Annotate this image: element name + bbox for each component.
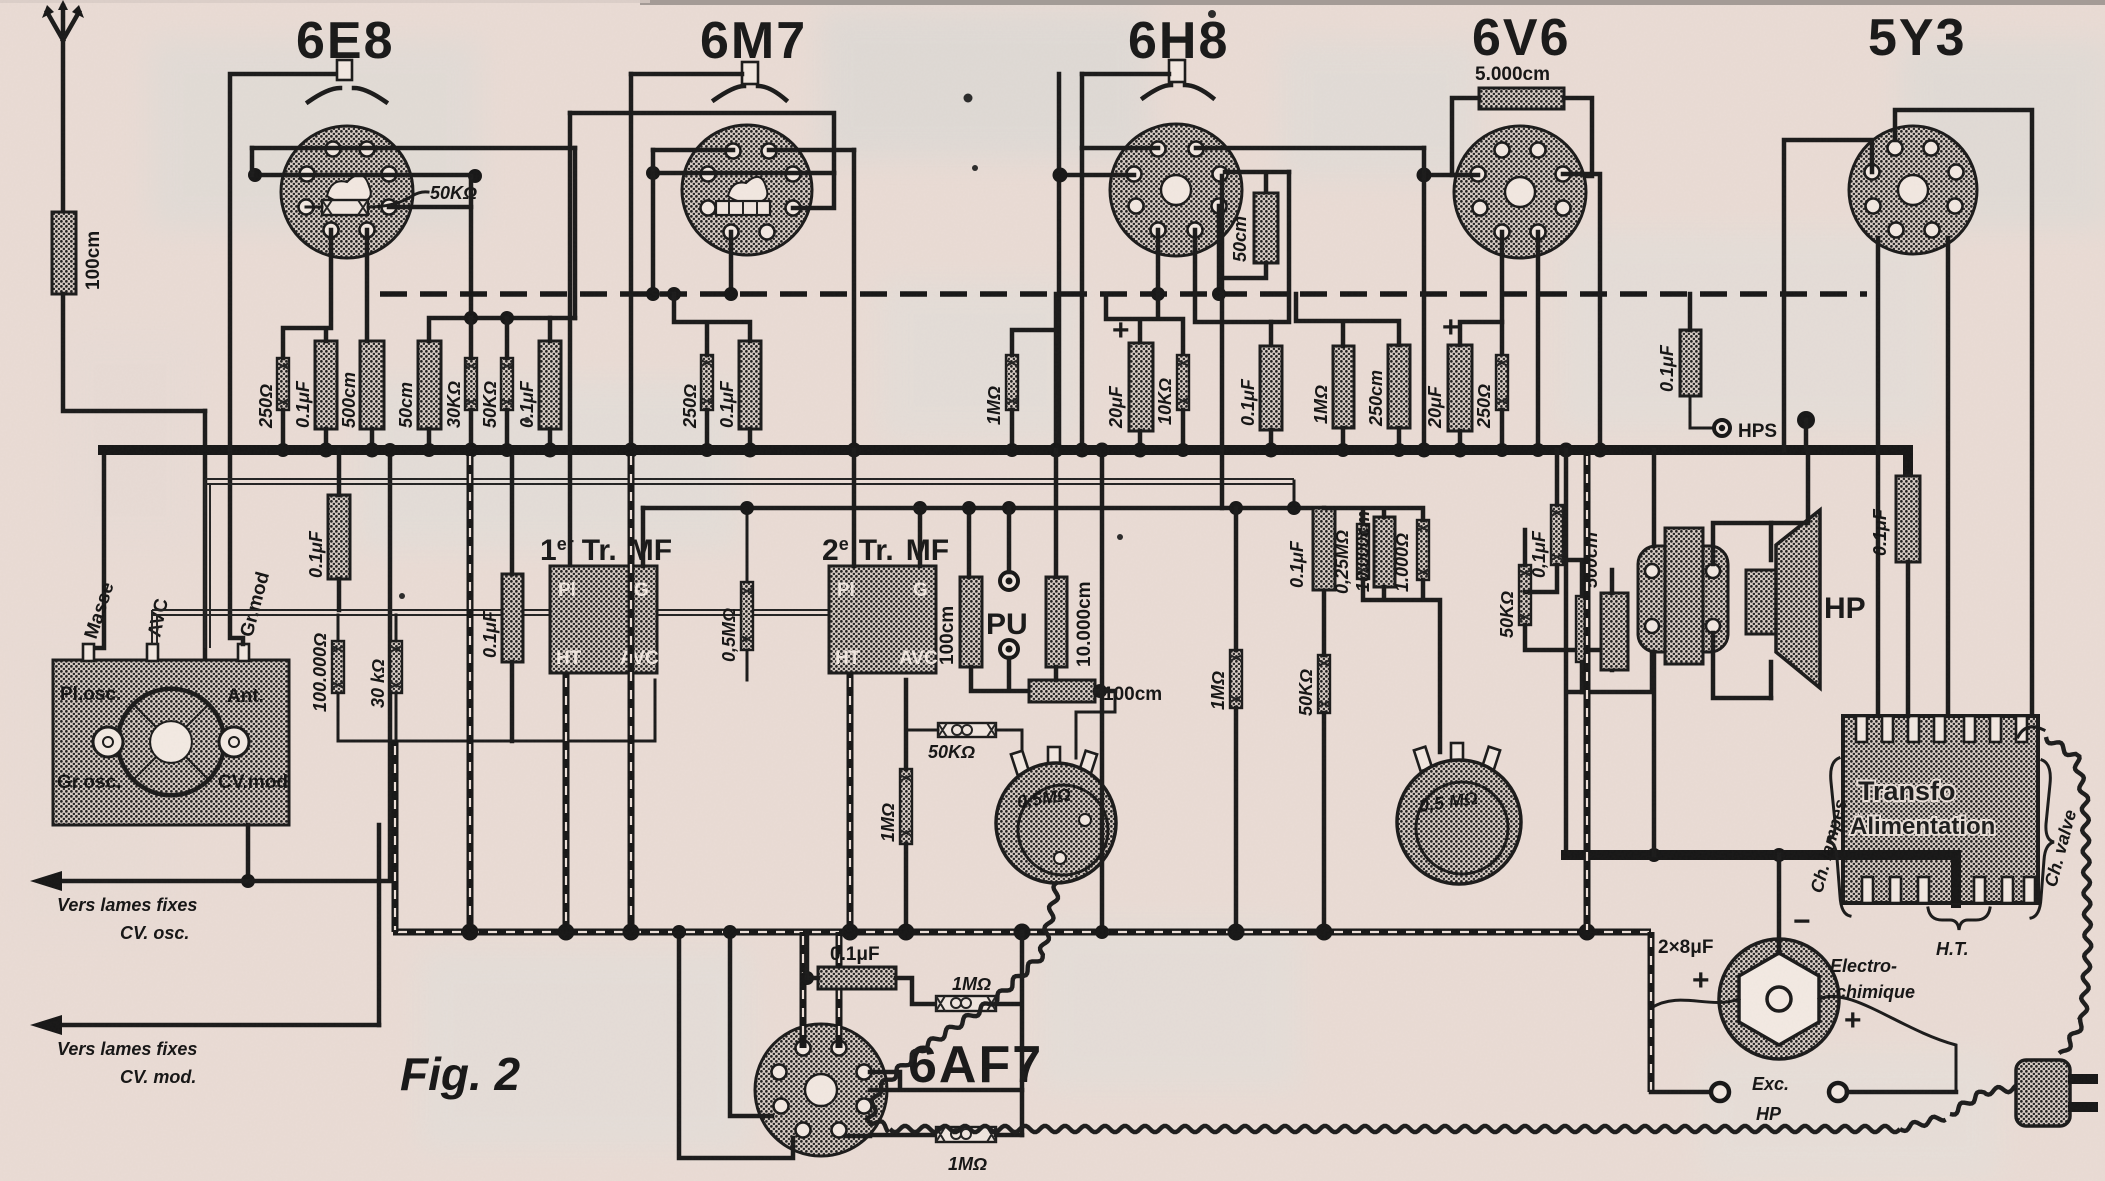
label Ch. valve	[2041, 808, 2081, 890]
capacitor 20uF (electrolytic)	[1129, 343, 1153, 431]
brace HT	[1928, 908, 1990, 930]
label 6AF7	[908, 1036, 1043, 1094]
label 50Kohm	[1497, 591, 1517, 638]
tube 6M7 envelope	[682, 125, 812, 255]
wire 6V6 screen drop	[1536, 232, 1541, 450]
capacitor 500cm	[360, 341, 384, 429]
wire 2e MF HT drop (dashed black)	[847, 673, 854, 932]
label Pl.osc	[60, 684, 121, 705]
oscillator socket	[93, 688, 249, 796]
wire group bottoms to pot2	[1363, 579, 1440, 752]
resistor 30kohm (osc)	[390, 641, 402, 693]
label 0.1uF	[480, 610, 500, 658]
wire 6V6 grid line	[1424, 173, 1478, 178]
label 1Mohm	[1208, 671, 1228, 710]
capacitor 0.1uF (AVC)	[539, 341, 561, 429]
terminal HPS	[1714, 420, 1730, 436]
label 250ohm	[256, 384, 276, 429]
label 1er Tr. MF	[540, 534, 672, 567]
tube 6V6 pins	[1471, 143, 1571, 240]
wire 0.1uF column	[510, 450, 515, 741]
wire 6V6 cath comps bottoms	[1460, 410, 1502, 450]
main HT bus	[103, 445, 1810, 455]
wire 6E8 top grid line	[252, 146, 575, 151]
top cap 6E8	[308, 60, 386, 102]
tube 5Y3 envelope	[1849, 126, 1977, 254]
transformer bottom terminal slots	[1862, 877, 2035, 903]
wire 1er MF G drop	[641, 508, 646, 566]
label 250ohm	[680, 384, 700, 429]
transformer top terminal slots	[1856, 716, 2027, 742]
resistor 250ohm (6V6 cathode)	[1496, 355, 1508, 410]
tube 6E8 pins	[299, 142, 397, 238]
wire x854 drop	[852, 150, 857, 450]
wire 30kohm top	[395, 615, 398, 641]
resistor 1.000ohm	[1417, 520, 1429, 580]
label 1Mohm	[948, 1154, 987, 1174]
wire 0.1uF top stub	[1269, 322, 1274, 346]
wire 100.000ohm top	[337, 615, 340, 641]
wire 2e MF Pl riser	[852, 450, 857, 566]
tube 6V6 envelope	[1454, 126, 1586, 258]
wire group tops	[1324, 508, 1423, 524]
label 0,5 Mohm (tone pot)	[1418, 788, 1479, 816]
node dashed bus dots	[646, 287, 738, 301]
node 471/318	[464, 311, 514, 325]
wire 6AF7 bottom left feed	[679, 932, 793, 1158]
node 0.1uF left	[800, 932, 818, 985]
node bus x390	[383, 443, 397, 457]
wire x631 riser	[629, 74, 634, 450]
resistor 1Mohm (6AF7 top)	[936, 996, 996, 1011]
wire 1M right riser	[996, 932, 1022, 1135]
label + (6V6 20uF)	[1442, 311, 1460, 344]
resistor 30Kohm	[465, 358, 477, 410]
wire 2e MF G riser	[913, 501, 927, 566]
terminal PU top	[1000, 572, 1018, 590]
ink specks	[399, 10, 1216, 599]
node bus dots 6E8	[276, 443, 558, 458]
wire dashed bus	[380, 291, 1867, 297]
label HPS	[1738, 421, 1777, 442]
speaker HP driver	[1746, 570, 1776, 634]
pin Pl / G / HT / AVC (2e)	[835, 580, 938, 669]
wire 6AF7 right pins	[846, 1072, 1022, 1136]
label 0.1uF	[517, 380, 537, 428]
node 100cm right	[1056, 667, 1115, 698]
label 30Kohm	[444, 381, 464, 428]
wire 6H8 plate line	[1059, 173, 1134, 178]
label 6V6	[1472, 9, 1571, 67]
capacitor 0.1uF (6H8)	[1260, 346, 1282, 430]
wire 0.1uF right to 1M	[896, 978, 936, 1004]
resistor 250ohm (6E8 cathode)	[277, 358, 289, 410]
capacitor 50cm (6H8)	[1254, 193, 1278, 263]
wire vers lames fixes CV.osc	[30, 450, 390, 891]
label Electro-chimique	[1830, 956, 1915, 1002]
capacitor 0.1uF (HT)	[1896, 476, 1920, 562]
wire 6H8 cath pin drop	[1156, 230, 1161, 316]
wire electro right + lead	[1819, 996, 1956, 1092]
wire 1M/250cm tops	[1296, 294, 1399, 346]
label + (left)	[1692, 964, 1710, 997]
wire cord into plug	[1950, 1086, 2016, 1115]
wire 6AF7 left feed	[730, 932, 772, 1116]
label 0.1uF	[1870, 508, 1890, 556]
capacitor electrochimique 2x8uF	[1719, 939, 1839, 1059]
capacitor 20uF (6V6 electrolytic)	[1448, 345, 1472, 431]
resistor 1Mohm (x1236)	[1230, 650, 1242, 708]
transformer HP terminals	[1645, 564, 1720, 633]
transformer HP core	[1665, 528, 1703, 664]
label 1.000ohm	[1392, 533, 1412, 592]
label 10.000cm	[1074, 581, 1095, 667]
label minus	[1793, 905, 1811, 938]
label AVC	[144, 597, 173, 639]
wire 0.1uF to transfo	[1906, 562, 1911, 716]
wire antenna to bus	[63, 294, 205, 411]
node dash bus	[1151, 287, 1226, 301]
capacitor 0.1uF (HPS)	[1680, 330, 1701, 396]
label 0.1uF	[293, 380, 313, 428]
resistor 0.25Mohm	[1357, 524, 1369, 579]
transformer HP (output) bobbin	[1638, 546, 1728, 652]
wire vers lames fixes CV.mod	[30, 1015, 379, 1035]
wire CV.osc pin drop	[246, 825, 251, 881]
capacitor 500cm	[1601, 593, 1628, 670]
terminal AVC	[147, 644, 158, 661]
capacitor 250cm	[1388, 345, 1410, 428]
wire left bus drop to Masse	[90, 411, 205, 660]
wire PU top link	[962, 501, 1009, 577]
wire bus to frame	[1775, 450, 1808, 523]
label 1Mohm	[878, 803, 898, 842]
wire rail left riser	[392, 741, 399, 932]
wire electro left + lead	[1651, 999, 1739, 1008]
wire primary feeds	[1582, 450, 1654, 692]
wire twisted pair volume to mains	[867, 882, 1946, 1132]
label Ant	[227, 686, 264, 707]
capacitor 5.000cm (tone)	[1479, 88, 1564, 109]
wire 0.1uF HT cap column	[1906, 476, 1911, 479]
wire x1082 riser	[1080, 74, 1085, 450]
wire x1102 drop to rail	[1095, 443, 1110, 940]
label 0,5Mohm (volume pot)	[1016, 785, 1072, 812]
label Exc. HP	[1752, 1074, 1789, 1124]
wire HT feed inside transfo	[1843, 855, 1956, 898]
tube 6M7 pins	[701, 144, 801, 240]
label HT.	[1936, 939, 1969, 959]
wire heater pair to Exc terminals	[1587, 450, 1651, 1092]
label 0.1uF	[717, 380, 737, 428]
wire 1M x1236 column	[1234, 508, 1239, 932]
wire 1M bottom right	[996, 1133, 1022, 1138]
capacitor 10.000cm	[1046, 577, 1067, 667]
label CV.mod	[218, 772, 288, 793]
wire 50cm top link	[429, 318, 575, 341]
resistor 10Kohm	[1177, 355, 1189, 410]
label 1Mohm	[984, 386, 1004, 425]
wire 6H8 grid line	[1082, 146, 1424, 151]
label 0.25Mohm	[1332, 530, 1352, 594]
capacitor 0.1uF (osc grid)	[502, 574, 523, 662]
resistor 1Mohm (AF coupling)	[900, 769, 912, 844]
resistor 50Kohm (6V6 grid stopper)	[1519, 565, 1531, 625]
transformer 2e Tr.MF	[829, 566, 936, 673]
plug secteur	[2016, 1060, 2098, 1126]
wire 6M7 plate line y173	[653, 171, 834, 176]
label 20uF	[1425, 385, 1445, 429]
top cap 6H8	[1143, 60, 1213, 98]
label 100cm	[83, 231, 104, 290]
wire 6M7 top cap feed	[631, 72, 742, 77]
wire 1M top	[1012, 330, 1056, 355]
wire AVC return to 1er MF	[338, 680, 655, 741]
transformer 1er Tr.MF	[550, 566, 657, 673]
label 1Mohm	[1311, 385, 1331, 424]
wire x1056 column	[1054, 294, 1059, 450]
wire 0.5M links	[746, 508, 749, 680]
node CV.osc junction	[241, 874, 255, 888]
node 6V6 grid	[1417, 168, 1432, 183]
wire PU bottom to 100cm horiz	[971, 658, 1029, 691]
brace Ch. lampes	[1827, 758, 1850, 916]
label 100cm	[1103, 684, 1162, 705]
wire tone cap loop	[1452, 98, 1592, 176]
label Transfo Alimentation	[1850, 776, 1995, 840]
brace Ch. valve	[2031, 760, 2054, 918]
label Vers lames fixes CV.osc	[57, 895, 197, 943]
node x730	[723, 925, 737, 939]
AVC double line	[152, 610, 918, 644]
wire secondary frame to speaker	[1713, 523, 1771, 698]
node 653/173	[646, 166, 660, 180]
node plate corner	[248, 148, 482, 183]
wire x570 drop to 1er MF	[568, 113, 573, 566]
label 0.1uF	[830, 944, 880, 965]
label 0.1uF	[1287, 540, 1307, 588]
wire heater riser x470	[467, 450, 474, 932]
wire Exc left link	[1651, 1090, 1710, 1095]
wire 6M7 cathode pin drop	[729, 232, 734, 294]
wire 5Y3 cathode top loop	[1895, 110, 2032, 716]
wire Exc right link	[1847, 1090, 1956, 1095]
speaker HP cone	[1776, 510, 1820, 688]
resistor 50Kohm (grid leak)	[501, 358, 513, 410]
wire 6AF7 heater dashes	[803, 932, 839, 1048]
wire Gr.mod riser (to 6E8 top cap)	[230, 74, 337, 644]
wire 6V6 cath drop	[1500, 232, 1505, 355]
node rail dots	[462, 924, 1596, 941]
label Ch. lampes	[1807, 797, 1851, 895]
label 50Kohm	[1296, 669, 1316, 716]
wire 6E8 plate line	[252, 173, 475, 178]
resistor 1Mohm (detector)	[1006, 355, 1018, 410]
label 0.1uF	[1529, 530, 1549, 578]
wire 30kohm bottom	[395, 693, 398, 741]
capacitor 100cm (PU)	[960, 577, 982, 667]
capacitor 50cm	[418, 341, 441, 429]
wire screen pin to grid-leak column	[389, 205, 471, 210]
wire 1er MF HT drop (dashed black)	[563, 673, 570, 932]
label 6E8	[296, 12, 395, 70]
tube 6E8 envelope	[281, 126, 413, 258]
wire 0.1uF to HPS terminal	[1690, 396, 1712, 428]
wire x575 column	[573, 148, 578, 318]
label 0.1uF	[1657, 344, 1677, 392]
label 50Kohm	[928, 742, 975, 762]
wire x1424 riser	[1422, 148, 1427, 450]
wire heater riser x631	[628, 450, 635, 932]
node bus dots 6M7	[624, 443, 862, 458]
node y508 dots	[740, 501, 1301, 515]
wire grid return y508	[643, 506, 1324, 511]
wire 6M7 top bus y113	[570, 113, 834, 173]
node 1059/175	[1053, 168, 1068, 183]
node y855 dots	[1647, 848, 1875, 862]
label 6M7	[700, 12, 807, 70]
label 100cm	[937, 606, 958, 665]
capacitor 10.000cm	[1374, 517, 1395, 587]
terminal PU bottom	[1000, 640, 1018, 658]
AVC double line to 2e MF	[914, 615, 919, 671]
label 0.5Mohm	[719, 608, 739, 662]
wire cathode pin to 250/0.1 tops	[283, 230, 331, 358]
wire 30K 50K 0.1 tops	[471, 318, 550, 358]
label 2x8uF	[1658, 937, 1713, 958]
wire 10.000cm top	[1054, 450, 1059, 577]
terminal Gr.mod	[238, 644, 249, 661]
wire AVC drop to grid group	[1293, 481, 1296, 508]
terminal Exc HP right	[1829, 1083, 1847, 1101]
wire 1M column	[904, 680, 909, 932]
label Gr.osc	[57, 772, 121, 793]
wire CV.mod pin drop	[377, 825, 382, 1025]
resistor 0.1uF (small)	[1551, 505, 1563, 565]
wire 50cm bottom	[1219, 206, 1266, 294]
AVC long double line below bus	[205, 479, 1294, 648]
wire 20uF/10K tops	[1106, 294, 1183, 355]
label PU	[986, 608, 1028, 641]
wire x1289 drop	[1195, 172, 1289, 322]
wire 5Y3 plate drops	[1878, 238, 1948, 716]
label 0.1uF	[306, 530, 326, 578]
potentiometer 0.5Mohm (tone)	[1397, 743, 1521, 884]
socket bar 6M7	[716, 201, 770, 215]
wire 6M7 cathode comps tops	[674, 294, 750, 355]
label 20uF	[1106, 385, 1126, 429]
wire 50K links	[906, 691, 1115, 758]
wire secteur twisted cord right	[2018, 727, 2091, 1054]
wire 0.1uF to dashed bus	[1688, 294, 1693, 330]
tube 6AF7 envelope	[755, 1024, 887, 1156]
wire 6M7 comps bottoms	[707, 410, 750, 450]
wire electro top	[1777, 855, 1782, 953]
wire screen link	[793, 173, 834, 208]
wire 6H8 diode lead	[1225, 172, 1289, 193]
node HPS tap	[1797, 411, 1815, 450]
tube 6H8 pins	[1127, 142, 1228, 238]
wire grid-leak column x471	[469, 176, 474, 318]
capacitor 0.1uF (coupling)	[1313, 508, 1335, 590]
wire 20uF top	[1460, 322, 1502, 345]
wire HT feed line y855	[1566, 855, 1956, 903]
wire 500cm links	[1566, 450, 1612, 855]
label Masse	[81, 580, 119, 642]
label 500cm	[339, 372, 359, 428]
label Fig. 2	[400, 1048, 521, 1100]
capacitor 500cm (tone, small)	[1576, 596, 1589, 662]
resistor 1Mohm (6AF7 bottom)	[936, 1127, 996, 1142]
label Gr.mod	[237, 570, 274, 640]
label 50Kohm	[480, 381, 500, 428]
label 250cm	[1366, 370, 1386, 427]
label 1Mohm	[952, 974, 991, 994]
label 50Kohm	[430, 183, 477, 203]
wire 5Y3 left loop	[1784, 140, 1872, 450]
capacitor 0.1uF (6E8 cathode, below bus)	[328, 495, 350, 579]
wire 0.1uF stub	[337, 450, 342, 610]
wire x1222 riser from y508	[1220, 176, 1225, 508]
edge smudge top	[640, 0, 2105, 5]
capacitor 100cm (antenna)	[52, 212, 76, 294]
wire 6H8 cap feed	[1082, 72, 1169, 77]
resistor 250ohm (6M7 cathode)	[701, 355, 713, 410]
wire component bottoms to bus	[283, 410, 550, 450]
node bus dots mid	[1005, 443, 1406, 458]
label 0.1uF	[1238, 378, 1258, 426]
label 500cm	[1581, 532, 1601, 588]
wire 6V6 plate	[1563, 174, 1600, 450]
capacitor 0.1uF (6E8 cathode)	[315, 341, 337, 429]
wire HT rail (black with white dashes)	[393, 929, 1651, 936]
pin Pl / G / HT / AVC (1er)	[556, 580, 659, 669]
tube 5Y3 pins	[1865, 141, 1964, 238]
wire x1059 riser	[1057, 74, 1062, 450]
tube 6AF7 pins	[772, 1041, 872, 1138]
antenna	[42, 0, 84, 212]
resistor 100.000ohm	[332, 641, 344, 693]
capacitor 100cm (horizontal)	[1029, 680, 1095, 702]
potentiometer 0.5Mohm (volume)	[996, 747, 1116, 883]
top cap 6M7	[714, 62, 786, 100]
label 2e Tr. MF	[822, 534, 949, 567]
wire 6M7 grid line y150	[653, 148, 854, 153]
wire speaker frame verticals	[1769, 523, 1774, 698]
label HP	[1824, 592, 1866, 625]
wire 0.1uF/50K links	[1525, 450, 1612, 670]
tube 6H8 envelope	[1110, 124, 1242, 256]
wire x1654 to primary	[1652, 652, 1657, 855]
label 10.000cm	[1353, 511, 1373, 592]
resistor 1Mohm (AF grid)	[1333, 346, 1354, 428]
resistor 50Kohm (horizontal)	[938, 723, 996, 737]
oscillator padder block	[53, 660, 289, 825]
label + (20uF)	[1112, 314, 1130, 347]
resistor 50Kohm (inside socket)	[322, 200, 368, 215]
node bus dots 6V6	[1417, 443, 1608, 458]
wire x653 column	[651, 150, 656, 294]
label 30kohm	[368, 659, 388, 708]
label 100.000ohm	[310, 633, 330, 712]
label 6H8	[1128, 12, 1229, 70]
capacitor 0.1uF (6AF7 horizontal)	[818, 967, 896, 989]
label 50cm	[1230, 216, 1250, 262]
wire pin to 500cm top	[365, 230, 370, 341]
node x679	[672, 925, 686, 939]
transformer Transfo Alimentation	[1843, 716, 2038, 903]
terminal Exc HP left	[1711, 1083, 1729, 1101]
